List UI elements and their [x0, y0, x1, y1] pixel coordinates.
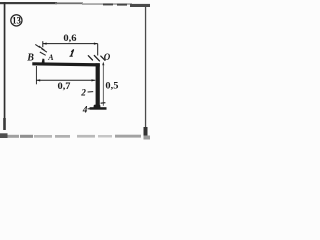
svg-text:O: O [104, 52, 111, 62]
horizontal rod 1 (B to corner O) [32, 62, 100, 66]
svg-text:13: 13 [12, 16, 21, 26]
vertical rod 2 [96, 63, 100, 109]
svg-text:0,5: 0,5 [105, 82, 118, 92]
frame right border [144, 6, 151, 140]
frame bottom dashes [8, 135, 142, 138]
svg-text:0,6: 0,6 [63, 33, 77, 43]
dimension 0,5 line [101, 63, 106, 106]
hinge pin at A [42, 59, 45, 63]
dimension 0,7 arrowheads [36, 79, 40, 81]
wall hatching at right support O [88, 56, 105, 61]
svg-text:4: 4 [82, 105, 88, 115]
figure number badge 13 [11, 15, 22, 26]
frame left border [0, 2, 8, 138]
dimension 0,5 top arrowhead [102, 62, 104, 66]
foot 4 (crossbar at bottom) [90, 107, 107, 110]
dimension 0,7 line [36, 66, 95, 84]
svg-text:A: A [47, 53, 54, 62]
frame top border [0, 2, 150, 7]
svg-text:0,7: 0,7 [58, 81, 72, 91]
junction blob at rod bottom [94, 105, 101, 110]
label 1 (rod) [70, 50, 74, 56]
dimension 0,6 arrowheads [43, 43, 47, 45]
svg-text:2: 2 [80, 89, 86, 99]
dimension 0,6 line [43, 41, 98, 55]
wall hatching at left support [35, 44, 47, 55]
svg-text:B: B [26, 53, 34, 64]
